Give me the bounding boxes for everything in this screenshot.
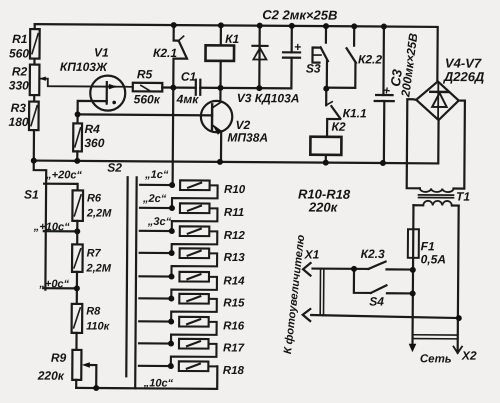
svg-text:R4: R4 [84, 122, 100, 136]
svg-text:360: 360 [84, 136, 104, 150]
svg-text:К2.3: К2.3 [361, 247, 385, 261]
svg-text:„+20с“: „+20с“ [45, 169, 82, 181]
svg-text:R3: R3 [11, 101, 27, 115]
svg-text:220к: 220к [308, 200, 339, 215]
svg-text:R5: R5 [137, 67, 153, 81]
svg-text:R16: R16 [223, 320, 245, 332]
svg-text:220к: 220к [37, 369, 65, 383]
svg-text:V3 КД103А: V3 КД103А [237, 91, 300, 105]
svg-text:К1: К1 [225, 32, 239, 46]
svg-text:F1: F1 [421, 239, 435, 253]
svg-text:Х2: Х2 [461, 349, 477, 363]
svg-text:200мк×25В: 200мк×25В [398, 32, 420, 99]
svg-text:Т1: Т1 [456, 190, 470, 204]
svg-text:560: 560 [9, 46, 29, 60]
svg-text:С2 2мк×25В: С2 2мк×25В [262, 7, 337, 23]
svg-text:Д226Д: Д226Д [443, 69, 485, 84]
svg-text:R9: R9 [51, 351, 67, 365]
svg-text:330: 330 [9, 78, 29, 92]
svg-text:„+10с“: „+10с“ [33, 221, 70, 233]
svg-text:R11: R11 [224, 207, 244, 219]
svg-text:V1: V1 [94, 46, 109, 60]
svg-text:К1.1: К1.1 [343, 106, 367, 120]
svg-text:R7: R7 [87, 247, 102, 259]
svg-text:S4: S4 [369, 294, 384, 308]
svg-text:„10с“: „10с“ [143, 377, 174, 389]
svg-text:+: + [294, 40, 301, 54]
svg-text:R6: R6 [87, 192, 102, 204]
svg-text:560к: 560к [134, 92, 161, 106]
svg-text:„3с“: „3с“ [147, 216, 172, 228]
svg-text:R17: R17 [223, 342, 245, 354]
svg-text:S1: S1 [24, 188, 39, 202]
svg-text:R2: R2 [12, 64, 28, 78]
svg-text:Сеть: Сеть [420, 353, 452, 365]
svg-text:К2: К2 [331, 120, 345, 134]
svg-text:R14: R14 [223, 275, 245, 287]
svg-text:R12: R12 [224, 230, 246, 242]
svg-text:„2с“: „2с“ [142, 193, 167, 205]
svg-text:К2.1: К2.1 [153, 46, 177, 60]
svg-text:R13: R13 [224, 252, 246, 264]
svg-text:180: 180 [8, 115, 28, 129]
svg-text:S2: S2 [107, 161, 122, 175]
svg-text:+: + [379, 86, 394, 95]
svg-text:110к: 110к [86, 320, 111, 332]
svg-text:R18: R18 [223, 365, 245, 377]
svg-text:S3: S3 [306, 61, 321, 75]
svg-text:„+0с“: „+0с“ [38, 278, 69, 290]
svg-text:4мк: 4мк [176, 92, 200, 106]
svg-text:2,2М: 2,2М [86, 207, 112, 219]
svg-text:С1: С1 [181, 70, 197, 84]
svg-text:X1: X1 [304, 247, 320, 261]
svg-text:R1: R1 [12, 32, 28, 46]
svg-text:МП38А: МП38А [227, 130, 268, 144]
svg-text:R10: R10 [224, 184, 246, 196]
svg-text:2,2М: 2,2М [85, 262, 111, 274]
svg-text:К2.2: К2.2 [358, 52, 382, 66]
svg-text:R15: R15 [223, 297, 245, 309]
svg-text:К фотоувеличителю: К фотоувеличителю [282, 234, 307, 355]
svg-text:„1с“: „1с“ [144, 169, 169, 181]
svg-text:0,5А: 0,5А [421, 252, 446, 266]
svg-text:КП103Ж: КП103Ж [60, 60, 108, 74]
svg-text:R8: R8 [86, 305, 101, 317]
